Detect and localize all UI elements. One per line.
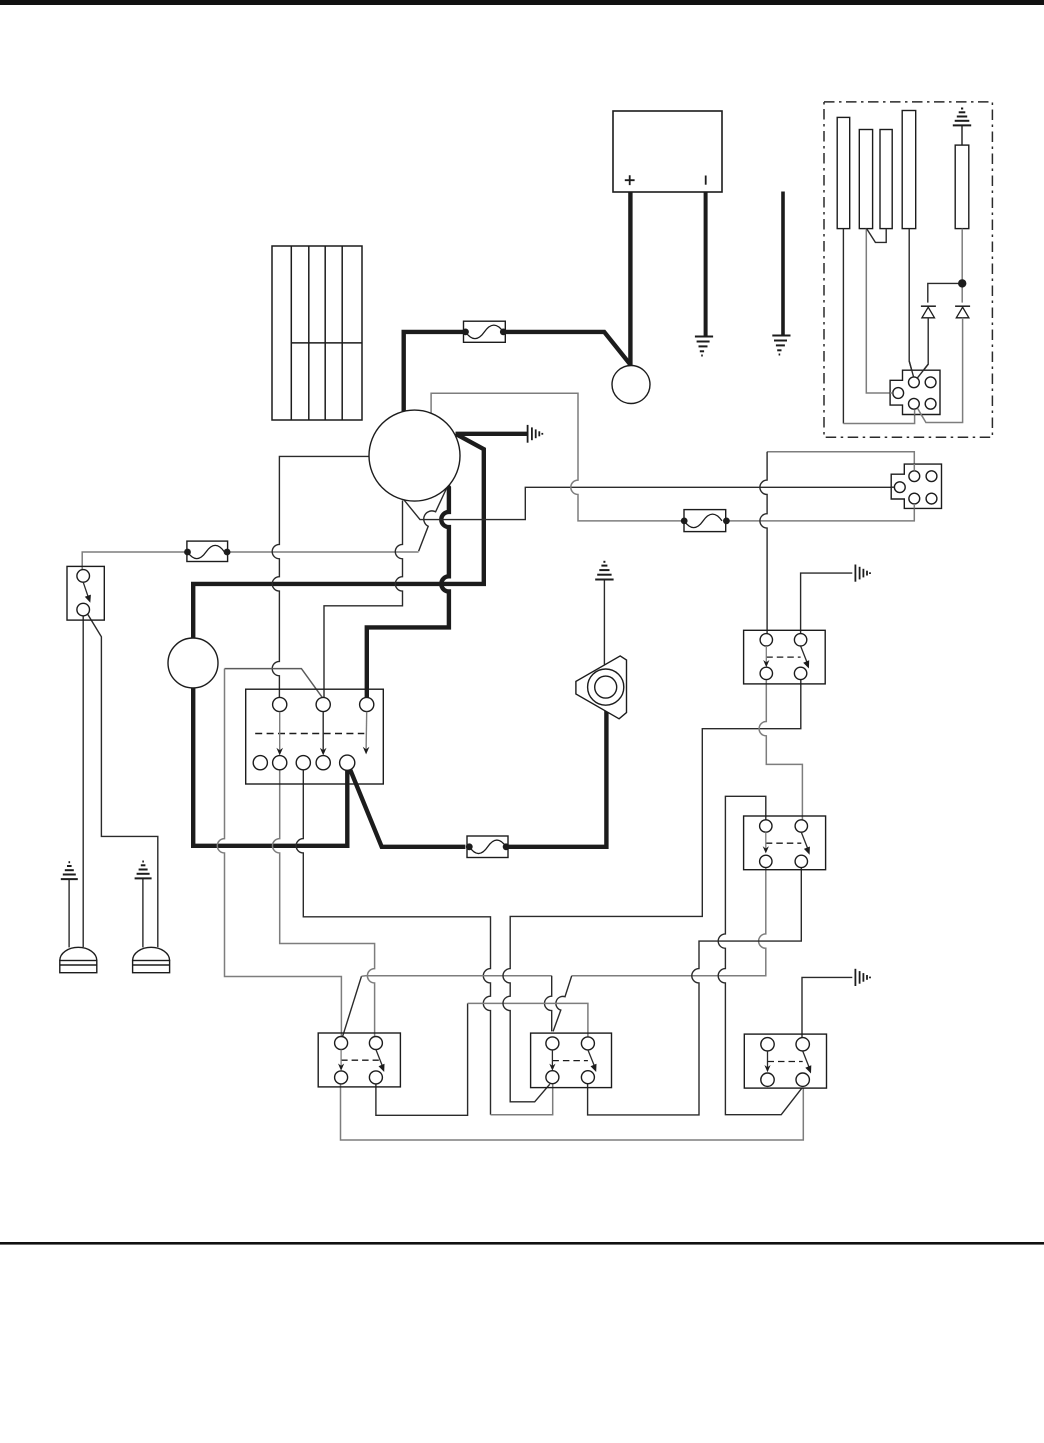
K2 contact arrow 1	[765, 832, 767, 849]
wire: circle-left horizontal to ignition pin1 feed (gray, hops)	[272, 456, 369, 697]
S3 contact arrow 2	[376, 1050, 382, 1066]
S4 pin 2 bottom	[581, 1071, 594, 1084]
ignition switch S1 box	[246, 689, 384, 784]
ignition pin T1	[273, 697, 287, 711]
ignition contact arrow 1	[279, 712, 281, 751]
K1 pin 1 top	[760, 634, 772, 646]
regulator assembly dash-dot enclosure	[824, 102, 992, 437]
J1 pin top center	[909, 377, 920, 388]
ground GND3 (starter, comb style)	[528, 425, 543, 443]
wire: relay K1 pin2-bottom to S4 pin1-bottom (dark)	[503, 680, 801, 1102]
horn H2	[133, 947, 170, 972]
K1 contact arrow 1	[765, 646, 767, 663]
horn H2 ground stem	[142, 879, 144, 948]
ignition pin B1	[253, 756, 267, 770]
wire stub: bar2 lead inside connector J1 tab	[890, 392, 893, 394]
stator bar 3	[880, 130, 892, 229]
ignition pin B2	[273, 756, 287, 770]
wire: S3 pin1-top daisy chain to S4 pin1-top (gray, hops)	[343, 976, 362, 1037]
ground GND4 (relay, comb style)	[855, 565, 870, 582]
wire stub: bar4 lead inside connector J1	[909, 361, 913, 377]
fuse F3	[681, 510, 730, 532]
wire: ignition pin3-bottom to middle switch S4 pin1-bottom (dark, hops)	[296, 770, 490, 1115]
wire: solenoid funnel left side and run to connector J2 left pin	[403, 487, 894, 519]
wire: bar4 to connector J1 top pin	[909, 229, 913, 377]
S5 pin 1 bottom	[761, 1073, 774, 1086]
J1 pin top right	[925, 377, 936, 388]
ground GND1 (battery negative)	[695, 337, 713, 356]
stator bar 1	[837, 117, 850, 228]
fuse F4	[466, 836, 510, 858]
S3 pin 2 top	[369, 1037, 382, 1050]
wire stub: diode D1 lead inside connector J1	[917, 364, 928, 378]
wire: S5 pin2-top to chassis ground	[802, 977, 852, 1037]
S4 contact arrow 2	[588, 1050, 594, 1066]
S2 pin bottom	[77, 603, 90, 616]
wire: battery positive cable to ammeter	[628, 192, 632, 366]
relay K1 box	[744, 630, 826, 684]
wire: safety switch S2 to horn H2	[88, 614, 158, 947]
wire stub: harness lead inside connector J2 tab	[891, 486, 895, 488]
wire: starter to ignition switch pin3 (thick, with hops)	[367, 485, 449, 698]
wire stub: harness lead inside connector J2 top	[913, 464, 915, 471]
S5 contact arrow 2	[803, 1051, 809, 1067]
diode D1	[921, 306, 936, 318]
J2 pin bottom right	[926, 493, 937, 504]
relay K2 box	[744, 816, 826, 870]
switch S3 box (bottom left)	[318, 1033, 400, 1087]
lamp L1	[168, 638, 218, 688]
wire: solenoid funnel right side with hop	[419, 488, 447, 551]
ignition contact arrow 3	[365, 712, 368, 750]
wire: starter B+ down to corner and across to lamp branch (thick)	[193, 434, 484, 638]
diode D2	[955, 306, 970, 318]
starter motor M2	[369, 410, 460, 501]
oil pressure switch PS1 ground wire	[603, 580, 605, 665]
wire: relay K2 pin1-bottom to S4 pin1-top (gray, hops and diagonal)	[572, 868, 766, 976]
fuse F1	[462, 321, 507, 342]
ground GND7 (horn H1, inverted)	[61, 862, 78, 879]
K1 pin 2 bottom	[794, 667, 806, 679]
wire: bar2 to bar3 link	[867, 229, 887, 243]
J1 pin bottom right	[925, 398, 936, 409]
ignition pin B3	[296, 756, 310, 770]
wire: relay K2 pin1-top loop to S5 pin2-bottom (dark, hops)	[718, 796, 802, 1114]
switch S5 box (bottom right)	[744, 1034, 826, 1088]
J2 pin left	[894, 482, 905, 493]
wire: gray run to ignition pin2 diagonal	[225, 669, 323, 699]
wire: resistor to junction to diode D2	[961, 229, 963, 303]
safety switch S2 box	[67, 566, 104, 620]
ground GND5 (bottom right, comb style)	[855, 969, 870, 986]
wire: engine ground strap	[781, 192, 785, 336]
wire: starter bottom to ignition pin2 feed (dark, hops)	[324, 501, 403, 698]
battery plus terminal label	[625, 175, 635, 185]
S5 pin 2 top	[796, 1038, 809, 1051]
S5 pin 1 top	[761, 1038, 774, 1051]
K2 pin 2 top	[795, 820, 807, 832]
S2 pin top	[77, 570, 90, 583]
wire: gray feed from fuse F2 to solenoid funnel	[227, 551, 419, 553]
page top rule (black banner)	[0, 0, 1044, 5]
wire: diode D1 to connector J1 top pin	[917, 318, 928, 379]
battery minus terminal label	[705, 176, 707, 185]
stator bar 4	[902, 111, 916, 229]
wire: fuse F4 to oil pressure switch (thick)	[506, 710, 606, 847]
ignition pin T2	[316, 697, 330, 711]
S5 contact arrow 1	[767, 1051, 769, 1068]
battery BT1	[613, 111, 722, 192]
K1 pin 2 top	[794, 634, 806, 646]
ignition pin B5	[340, 755, 355, 770]
S4 contact arrow 1	[551, 1050, 553, 1066]
ground GND6 (oil pressure switch, inverted)	[595, 562, 613, 580]
page bottom rule	[0, 1242, 1044, 1245]
S3 pin 2 bottom	[369, 1071, 382, 1084]
S5 pin 2 bottom	[796, 1073, 809, 1086]
S3 pin 1 bottom	[335, 1071, 348, 1084]
wire: starter terminal to ignition feed via fuse F3 to connector J2 bottom pin	[431, 393, 914, 521]
wire: fuse F1 to starter solenoid stud	[404, 332, 466, 412]
wire: resistor to its ground	[961, 125, 963, 145]
S3 contact arrow 1	[340, 1050, 342, 1067]
S4 pin 2 top	[581, 1037, 594, 1050]
S3 pin 1 top	[335, 1037, 348, 1050]
wire stub: harness lead inside connector J2 bottom	[913, 504, 915, 509]
horn H1 ground stem	[68, 879, 70, 947]
wire: fuse F2 to safety switch S2	[82, 552, 187, 570]
wire: diode D2 to connector J1 bottom pin	[918, 318, 963, 423]
wire: relay K1 pin1-bottom to relay K2 pin2-top (gray, hop)	[759, 680, 802, 820]
J1 pin bottom center	[909, 398, 920, 409]
wire: S3 pin1-bottom long run to S5 pin2-bottom (gray)	[341, 1084, 804, 1140]
wire: ignition pin2-bottom to switch S3 pin2 (gray, hops)	[273, 770, 375, 1037]
stator bar 2	[859, 130, 872, 229]
wire: junction branch to diode D1	[928, 283, 962, 302]
K2 contact arrow 2	[801, 832, 807, 848]
wire: starter to chassis ground (thick)	[456, 432, 528, 436]
ignition contact arrow 2	[322, 712, 324, 751]
ground GND2 (engine)	[772, 336, 790, 355]
oil pressure switch PS1 body	[576, 656, 627, 719]
connector J2 body	[891, 464, 941, 508]
wire: main thick feed, fuse F1 to ammeter	[503, 332, 630, 366]
J2 pin top right	[926, 471, 937, 482]
wire: bar2 to connector J1 left pin	[866, 229, 892, 393]
ground GND8 (horn H2, inverted)	[135, 862, 152, 879]
K1 contact arrow 2	[801, 646, 807, 662]
switch S4 box (bottom middle)	[531, 1033, 612, 1088]
horn H1	[60, 947, 97, 972]
J2 pin top center	[909, 471, 920, 482]
wire: connector J2 top pin to relay K1 pin1 (with hops)	[767, 452, 914, 471]
wire: lamp L1 to thick bottom run and up to ignition pin 5	[193, 688, 347, 846]
wire: bar1 to connector J1 bottom pin	[842, 229, 844, 424]
wiring harness block W1 (striped connector block, top left)	[272, 246, 362, 420]
wire: relay K1 pin2 to chassis ground	[801, 573, 853, 633]
ground GND9 (above resistor, inverted)	[953, 109, 971, 126]
wire stub: diode D2 lead inside connector J1	[918, 408, 923, 416]
junction node	[958, 279, 966, 287]
K1 pin 1 bottom	[760, 667, 772, 679]
ignition pin B4	[316, 756, 330, 770]
S4 pin 1 bottom	[546, 1071, 559, 1084]
S4 pin 1 top	[546, 1037, 559, 1050]
J2 pin bottom center	[909, 493, 920, 504]
wire stub: bar1 lead inside connector J1	[914, 410, 916, 415]
wire: S3 pin2-bottom to S4 pin2-top (dark)	[376, 1003, 468, 1115]
K2 pin 1 bottom	[760, 855, 772, 867]
ignition switch dashed bar	[255, 733, 364, 735]
connector J1 body	[890, 370, 940, 414]
K2 pin 1 top	[760, 820, 772, 832]
resistor bar 5	[955, 145, 969, 229]
S2 lever arrow	[83, 582, 88, 598]
J1 pin left	[893, 388, 904, 399]
ignition pin T3	[360, 697, 374, 711]
wire: battery negative cable to ground	[704, 192, 708, 336]
K2 pin 2 bottom	[795, 855, 807, 867]
ammeter M1	[612, 366, 650, 404]
wire: ignition pin5 diagonal to fuse F4 (thick)	[350, 770, 465, 847]
wire: safety switch S2 to horn H1	[82, 616, 84, 947]
wire: S4 pin2-bottom to relay K2 pin2-bottom (dark, hops)	[588, 868, 802, 1115]
fuse F2	[184, 541, 230, 561]
